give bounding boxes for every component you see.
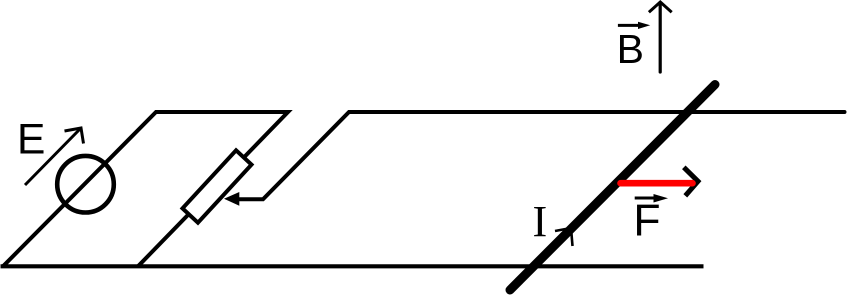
rod (sliding conductor) xyxy=(510,85,715,291)
svg-text:E: E xyxy=(17,117,45,164)
wire: bottom rail xyxy=(1,264,704,268)
EMF source circle E1 xyxy=(57,156,114,213)
arrow: rheostat wiper filled head xyxy=(224,192,239,206)
svg-text:I: I xyxy=(533,197,548,246)
arrow: force F red shaft xyxy=(621,180,693,187)
arrow: EMF direction open head xyxy=(65,128,84,144)
arrow: current direction open head on rod xyxy=(555,228,573,246)
arrow: magnetic field B open head xyxy=(649,2,672,12)
arrow: magnetic field B vertical shaft xyxy=(659,3,662,73)
arrow: force F black open head xyxy=(684,167,698,196)
arrow: EMF direction shaft xyxy=(25,129,80,185)
wire: left loop (EMF branch, left edge + top edge + right edge) xyxy=(3,112,288,266)
arrow: vector bar over B xyxy=(618,24,639,27)
arrow: vector bar over F xyxy=(635,197,655,200)
resistor R1 (rheostat body) xyxy=(182,150,251,222)
svg-text:F: F xyxy=(633,197,660,246)
wire: top rail with bend down to rheostat wiper xyxy=(238,112,845,199)
svg-text:B: B xyxy=(617,26,644,72)
